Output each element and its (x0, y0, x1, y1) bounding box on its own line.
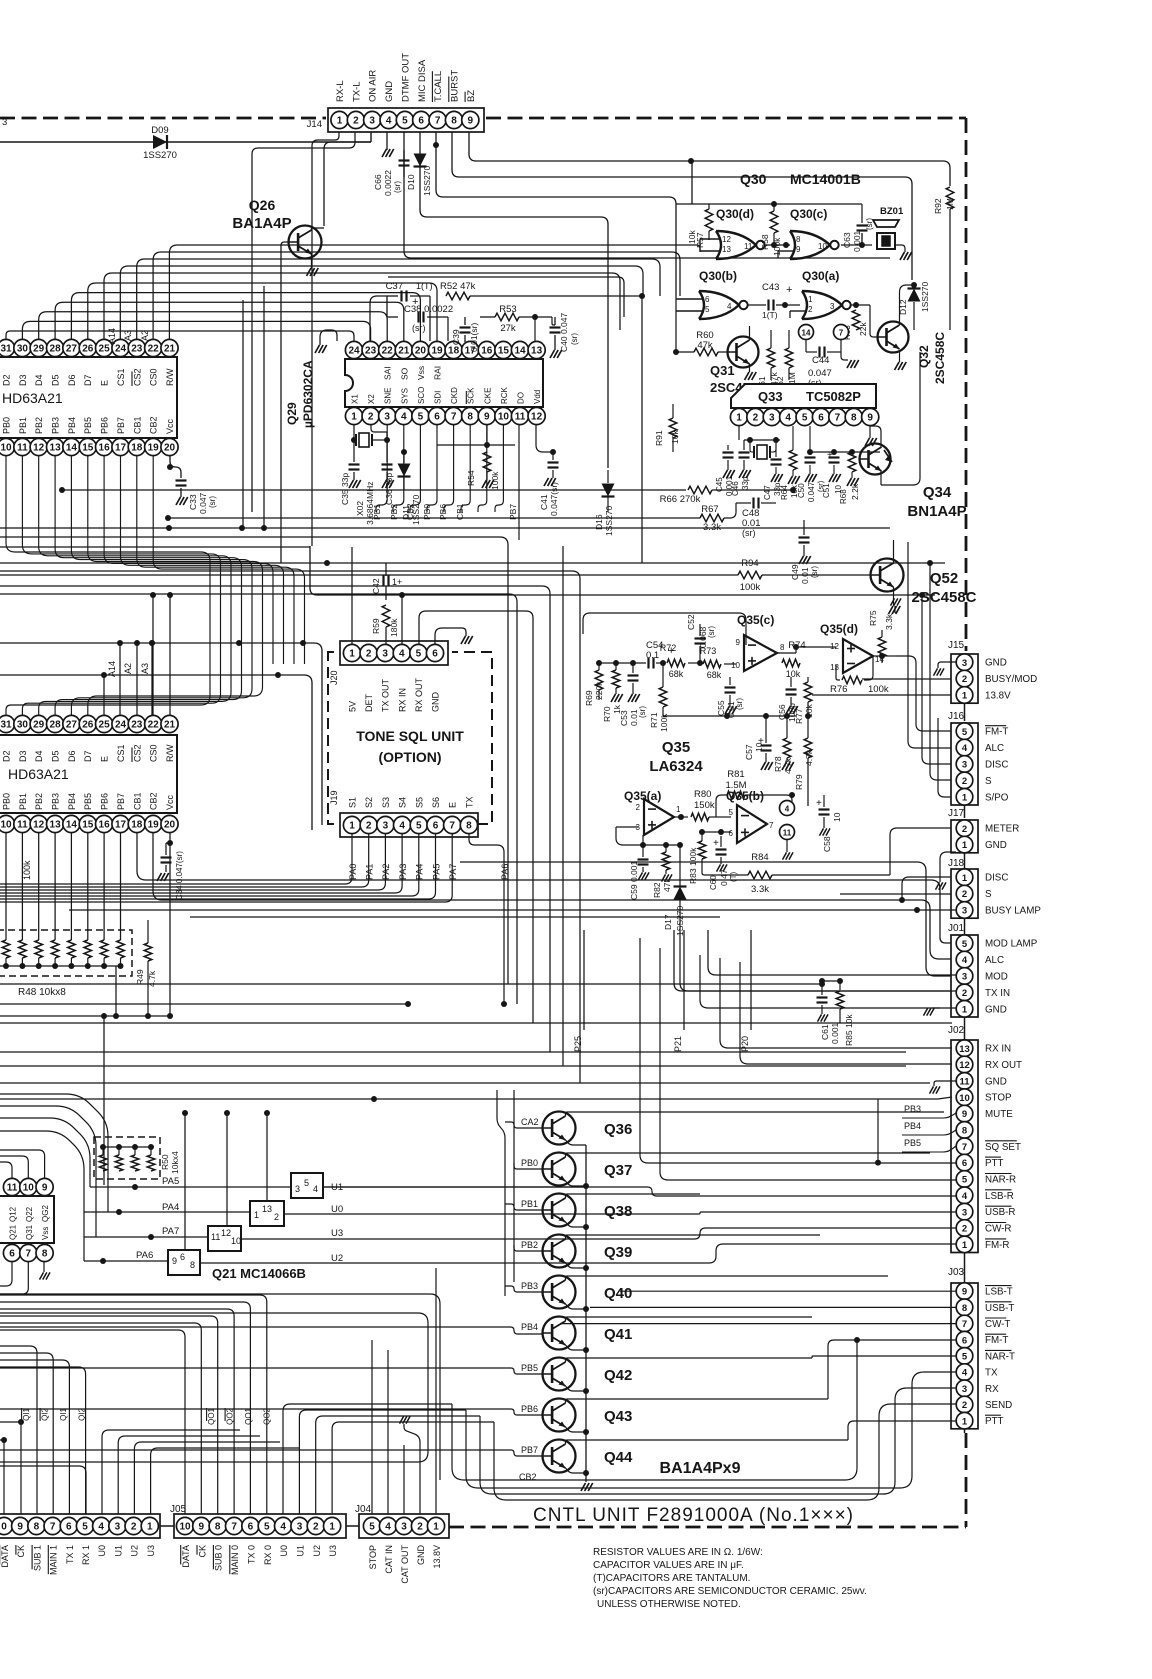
J20 pin4 wire up (401, 595, 403, 644)
svg-text:R72: R72 (660, 643, 677, 653)
svg-text:30: 30 (17, 344, 29, 355)
svg-text:3: 3 (383, 821, 389, 832)
svg-text:D7: D7 (83, 750, 93, 762)
svg-text:D3: D3 (18, 374, 28, 386)
svg-text:1(T): 1(T) (762, 310, 778, 320)
IC1 top pin labels (2, 374, 12, 386)
transistor Q32 (878, 322, 909, 353)
svg-text:J02: J02 (948, 1025, 965, 1036)
svg-text:5: 5 (962, 727, 968, 738)
svg-text:Q35(b): Q35(b) (726, 789, 764, 803)
Q35d output wire (873, 655, 882, 657)
svg-text:SO: SO (399, 367, 409, 380)
J05 pin verticals (0, 1330, 185, 1514)
vertical feeders top of mid-bus (431, 900, 433, 930)
svg-text:13: 13 (830, 663, 839, 672)
svg-text:CKD: CKD (450, 387, 459, 404)
svg-text:X2: X2 (367, 394, 376, 404)
svg-text:LA6324: LA6324 (649, 758, 703, 775)
svg-text:13: 13 (531, 346, 543, 357)
svg-text:4: 4 (962, 955, 968, 966)
svg-text:C57: C57 (744, 744, 754, 760)
svg-text:21: 21 (164, 720, 176, 731)
svg-text:R64: R64 (780, 485, 789, 500)
IC2 pins 25-21 wires up (103, 675, 105, 715)
svg-text:20: 20 (164, 820, 176, 831)
svg-text:1: 1 (351, 412, 357, 423)
wire C37 loop to Q29 (370, 296, 387, 341)
long net line to FM-T (452, 1340, 857, 1480)
svg-text:QO1: QO1 (244, 1407, 253, 1424)
svg-text:6: 6 (418, 116, 424, 127)
svg-text:3: 3 (962, 760, 967, 771)
svg-text:1: 1 (808, 295, 813, 304)
svg-text:16: 16 (481, 346, 493, 357)
svg-text:CKE: CKE (483, 388, 492, 404)
svg-text:C66: C66 (373, 174, 383, 190)
svg-text:DET: DET (364, 693, 374, 712)
IC Q33 TC5082P body (731, 384, 876, 408)
svg-text:13: 13 (262, 1204, 272, 1214)
svg-text:5: 5 (962, 1175, 968, 1186)
svg-text:Q35(c): Q35(c) (737, 613, 774, 627)
svg-text:12: 12 (959, 1060, 970, 1071)
svg-text:C40 0.047: C40 0.047 (559, 313, 569, 352)
svg-text:S6: S6 (431, 797, 441, 808)
transistor Q41 (543, 1317, 576, 1350)
svg-text:(sr): (sr) (735, 698, 744, 710)
svg-text:C55: C55 (716, 700, 726, 716)
bus line 2 under IC1 (0, 527, 890, 529)
svg-text:11: 11 (783, 829, 792, 838)
svg-text:PB7: PB7 (116, 793, 126, 810)
svg-text:R50: R50 (160, 1154, 170, 1170)
PA horizontal feeder to J01 (460, 862, 951, 976)
svg-text:BUSY LAMP: BUSY LAMP (985, 906, 1041, 917)
svg-text:C37: C37 (386, 281, 403, 292)
svg-text:(sr): (sr) (208, 496, 217, 508)
svg-text:13: 13 (722, 245, 731, 254)
resistor R79 (804, 738, 812, 758)
svg-text:P20: P20 (740, 1036, 750, 1052)
svg-text:CB2: CB2 (149, 792, 159, 810)
svg-text:GND: GND (384, 81, 395, 102)
resistor R82 (662, 852, 670, 870)
svg-text:1: 1 (962, 691, 968, 702)
svg-text:8: 8 (466, 821, 472, 832)
svg-text:68k: 68k (669, 669, 684, 679)
Q37 emitter wire (566, 1181, 587, 1185)
svg-text:1SS270: 1SS270 (143, 150, 177, 161)
diode D11 (398, 464, 411, 477)
bus lines middle-left (0, 562, 945, 564)
svg-text:4: 4 (280, 1522, 286, 1533)
diode D17 (674, 887, 687, 900)
transistor Q26 (289, 226, 322, 259)
PB labels under Q29 (372, 504, 382, 520)
svg-text:PB0: PB0 (2, 793, 12, 810)
svg-text:Q39: Q39 (604, 1244, 632, 1261)
svg-text:4: 4 (399, 649, 405, 660)
capacitor C37 tantalum (387, 295, 398, 297)
connector J14 (328, 108, 484, 132)
Q40 collector wire (566, 1276, 889, 1280)
Q26 collector wire (311, 226, 313, 230)
svg-text:MAIN 0: MAIN 0 (230, 1545, 240, 1575)
svg-text:18: 18 (131, 820, 143, 831)
svg-text:PTT: PTT (985, 1158, 1004, 1169)
svg-text:PB5: PB5 (521, 1363, 538, 1373)
svg-text:S1: S1 (348, 797, 358, 808)
svg-text:9: 9 (468, 116, 474, 127)
svg-text:5: 5 (304, 1178, 309, 1188)
transistor Q42 (543, 1358, 576, 1391)
svg-text:PB6: PB6 (100, 417, 110, 434)
svg-text:2: 2 (962, 674, 967, 685)
ground at J02 pin11 (934, 1081, 956, 1086)
svg-text:NAR-R: NAR-R (985, 1175, 1016, 1186)
capacitor C40 (550, 326, 561, 328)
svg-text:R69: R69 (584, 690, 594, 706)
svg-text:Q26: Q26 (249, 197, 276, 213)
svg-text:8: 8 (34, 1522, 40, 1533)
svg-text:U3: U3 (146, 1545, 156, 1557)
svg-text:BURST: BURST (450, 70, 461, 102)
svg-text:R81: R81 (727, 769, 744, 780)
svg-text:PA0: PA0 (348, 864, 358, 880)
svg-text:R70: R70 (602, 706, 612, 722)
svg-text:Q31: Q31 (710, 363, 735, 378)
svg-text:1: 1 (254, 1210, 259, 1220)
svg-text:X02: X02 (355, 501, 365, 516)
svg-text:0.47: 0.47 (719, 869, 729, 886)
svg-text:BA1A4Px9: BA1A4Px9 (660, 1460, 741, 1477)
svg-text:GND: GND (985, 1004, 1007, 1015)
svg-text:220k: 220k (594, 681, 604, 700)
svg-text:12: 12 (531, 412, 543, 423)
svg-text:GND: GND (985, 658, 1007, 669)
capacitor C56 (786, 688, 797, 690)
svg-text:Q43: Q43 (604, 1408, 632, 1425)
ground under left chip pin8 (43, 1262, 45, 1272)
capacitor C53 (628, 674, 639, 676)
svg-text:(sr): (sr) (412, 323, 426, 333)
resistor R91 (669, 418, 677, 438)
svg-text:R78: R78 (773, 756, 783, 772)
resistor R68 (848, 452, 856, 472)
vertical bundle right of TONE going down (516, 930, 517, 1004)
svg-text:26: 26 (82, 720, 94, 731)
vertical from C38 line down (447, 317, 449, 341)
svg-text:D6: D6 (67, 750, 77, 762)
svg-text:15: 15 (82, 443, 94, 454)
wire J14 pin5 stub down (404, 132, 890, 258)
A14 A2 A3 labels above IC2 (107, 661, 117, 677)
Q33 pins 1-9 (730, 408, 747, 425)
svg-text:R79: R79 (794, 774, 804, 790)
upper mid verticals from J14 area down (437, 145, 439, 296)
svg-text:A3: A3 (123, 330, 133, 341)
capacitor C59 (638, 858, 649, 860)
Q42 emitter wire (566, 1386, 587, 1390)
svg-text:Q38: Q38 (604, 1203, 632, 1220)
diode D12 (908, 289, 921, 302)
svg-text:7: 7 (26, 1249, 32, 1260)
svg-text:R/W: R/W (165, 368, 175, 386)
svg-text:4.7k: 4.7k (804, 749, 814, 766)
svg-text:QG2: QG2 (41, 1205, 50, 1222)
capacitor C47 (771, 458, 782, 460)
J03 PTT wire from Q44 (848, 1421, 956, 1440)
svg-text:Q41: Q41 (604, 1326, 632, 1343)
svg-text:PB6: PB6 (521, 1404, 538, 1414)
svg-text:ON AIR: ON AIR (368, 70, 379, 102)
svg-text:3: 3 (384, 412, 390, 423)
J14 pin labels (335, 80, 346, 102)
IC1-IC2 inter verticals (189, 460, 191, 715)
capacitor C33 (170, 456, 181, 478)
svg-text:RX OUT: RX OUT (985, 1060, 1022, 1071)
svg-text:3: 3 (369, 116, 375, 127)
svg-text:29: 29 (33, 344, 45, 355)
svg-text:DTMF OUT: DTMF OUT (400, 53, 411, 102)
capacitor C52 (695, 637, 706, 639)
IC2 bottom pin wires to R48 (5, 833, 7, 940)
svg-text:10: 10 (498, 412, 510, 423)
QO1 QO2 labels (207, 1407, 216, 1424)
svg-text:1: 1 (962, 1240, 968, 1251)
svg-text:4: 4 (785, 413, 791, 424)
resistor R66 (62, 489, 685, 491)
connector J20 (340, 641, 448, 665)
diode D09 (153, 135, 167, 149)
svg-text:11: 11 (515, 412, 526, 423)
border right dashed upper (965, 118, 968, 651)
svg-text:PB1: PB1 (521, 1199, 538, 1209)
capacitor C45 (723, 451, 734, 453)
svg-text:R66 270k: R66 270k (660, 494, 701, 505)
svg-text:(sr): (sr) (638, 706, 647, 718)
svg-text:ALC: ALC (985, 743, 1004, 754)
svg-text:SYS: SYS (400, 388, 409, 404)
svg-text:QI1: QI1 (59, 1407, 68, 1420)
svg-text:R73: R73 (700, 646, 717, 656)
svg-text:(sr): (sr) (742, 528, 756, 538)
svg-text:31: 31 (0, 720, 12, 731)
svg-text:CW-T: CW-T (985, 1319, 1010, 1330)
wire J14 pin8 fanout (452, 132, 912, 280)
svg-text:BZ: BZ (466, 90, 477, 102)
svg-text:R/W: R/W (165, 744, 175, 762)
svg-text:U1: U1 (113, 1545, 123, 1557)
svg-text:Q29: Q29 (285, 402, 299, 425)
svg-text:4: 4 (385, 1522, 391, 1533)
svg-text:3: 3 (297, 1522, 303, 1533)
J04 labels (368, 1545, 378, 1569)
svg-text:TC5082P: TC5082P (806, 389, 861, 404)
svg-text:5: 5 (962, 939, 968, 950)
nested corner wires above J02 (515, 930, 517, 1004)
svg-text:4: 4 (386, 116, 392, 127)
IC1 bottom pin wires bundle (6, 456, 210, 715)
svg-text:R49: R49 (135, 969, 145, 985)
svg-text:0.001: 0.001 (830, 1022, 840, 1044)
svg-text:5: 5 (264, 1522, 270, 1533)
svg-text:U2: U2 (312, 1545, 322, 1557)
svg-text:R80: R80 (694, 789, 711, 800)
svg-text:Q35: Q35 (662, 739, 690, 756)
svg-text:10kx4: 10kx4 (170, 1151, 180, 1174)
svg-text:7: 7 (231, 1522, 237, 1533)
svg-text:U3: U3 (328, 1545, 338, 1557)
svg-text:DO: DO (517, 392, 526, 404)
Q29 top pin labels (383, 366, 393, 380)
J20 pin1 wire up (351, 547, 353, 644)
svg-text:S5: S5 (414, 797, 424, 808)
svg-text:1: 1 (962, 792, 968, 803)
svg-text:RX IN: RX IN (985, 1044, 1011, 1055)
svg-text:2: 2 (962, 889, 967, 900)
svg-text:9: 9 (199, 1522, 205, 1533)
svg-text:C46: C46 (731, 481, 740, 496)
svg-text:FM-T: FM-T (985, 1335, 1008, 1346)
crystal X03 (753, 446, 755, 458)
svg-text:Vcc: Vcc (165, 418, 175, 434)
svg-text:6: 6 (9, 1249, 15, 1260)
svg-text:Q30(d): Q30(d) (716, 207, 754, 221)
mid bus horizontals (0, 983, 822, 985)
svg-text:R59: R59 (371, 618, 381, 634)
Q26 emitter ground (311, 254, 313, 268)
Q41 collector wire (566, 1317, 813, 1321)
svg-text:R82: R82 (652, 882, 662, 898)
svg-text:C42: C42 (371, 578, 381, 594)
resistor R54 (486, 425, 488, 445)
svg-text:7: 7 (769, 821, 774, 830)
crystal X02 (353, 425, 355, 440)
svg-text:J19: J19 (329, 790, 339, 805)
Q34 emitter wire (881, 330, 935, 480)
svg-text:J15: J15 (948, 640, 965, 651)
svg-text:UNLESS OTHERWISE NOTED.: UNLESS OTHERWISE NOTED. (597, 1599, 741, 1610)
svg-text:8: 8 (780, 643, 785, 652)
svg-text:RX 1: RX 1 (81, 1545, 91, 1565)
svg-text:3.3k: 3.3k (703, 522, 721, 533)
svg-text:3.3k: 3.3k (751, 884, 769, 895)
svg-text:C47: C47 (763, 485, 772, 500)
svg-text:2: 2 (636, 803, 641, 812)
svg-text:BZ01: BZ01 (880, 206, 904, 217)
J05 pins 4-1 up-right bends (283, 1404, 452, 1514)
svg-text:USB-R: USB-R (985, 1207, 1015, 1218)
transistor Q38 (543, 1194, 576, 1227)
bundle from IC2 bottom to right (137, 833, 951, 943)
svg-text:0.047: 0.047 (198, 492, 208, 514)
svg-text:S: S (985, 776, 992, 787)
svg-text:QO2: QO2 (226, 1407, 235, 1424)
Q26 base wire (281, 242, 288, 563)
svg-text:PB5: PB5 (904, 1138, 921, 1148)
svg-text:4.7k: 4.7k (147, 970, 157, 987)
svg-text:5: 5 (82, 1522, 88, 1533)
svg-text:PA2: PA2 (381, 864, 391, 880)
svg-text:3: 3 (962, 1207, 967, 1218)
Q29 pins 11-12 wires down (536, 425, 553, 452)
svg-text:2.2k: 2.2k (850, 483, 860, 500)
svg-text:C51: C51 (822, 483, 831, 498)
svg-text:Vss: Vss (416, 366, 426, 380)
svg-text:A2: A2 (140, 330, 150, 341)
svg-text:(sr): (sr) (707, 626, 716, 638)
IC2 top pin labels (2, 750, 12, 762)
svg-text:QO1: QO1 (207, 1407, 216, 1424)
svg-text:U1: U1 (296, 1545, 306, 1557)
diode D16 (602, 484, 615, 497)
svg-text:22: 22 (382, 346, 394, 357)
svg-text:PB4: PB4 (904, 1121, 921, 1131)
resistor network R48 10kx8 dashed box (0, 930, 132, 976)
svg-text:3: 3 (769, 413, 775, 424)
svg-text:MAIN 1: MAIN 1 (49, 1545, 59, 1575)
svg-text:S4: S4 (398, 797, 408, 808)
fan wires to J16 pins (895, 656, 951, 731)
svg-text:13.8V: 13.8V (432, 1545, 442, 1569)
capacitor C42 (382, 576, 384, 587)
svg-text:1: 1 (736, 413, 742, 424)
svg-text:CB1: CB1 (132, 416, 142, 434)
svg-text:R53: R53 (499, 304, 516, 315)
svg-text:6: 6 (433, 821, 439, 832)
svg-text:TONE SQL UNIT: TONE SQL UNIT (356, 728, 464, 744)
svg-text:TX: TX (464, 796, 474, 808)
vertical wires from bus corners down (0, 594, 517, 1004)
Q36 emitter wire (566, 1140, 587, 1144)
svg-text:J20: J20 (329, 670, 339, 685)
svg-text:Q32: Q32 (917, 345, 931, 368)
svg-text:25: 25 (99, 344, 111, 355)
svg-text:SUB 0: SUB 0 (214, 1545, 224, 1571)
svg-text:5: 5 (418, 412, 424, 423)
svg-text:J14: J14 (307, 119, 322, 130)
J06 wires up curving (18, 1419, 24, 1425)
svg-text:Q40: Q40 (604, 1285, 632, 1302)
left chip partial body (3, 1178, 20, 1195)
svg-text:1: 1 (676, 805, 681, 814)
J04 ground (404, 1426, 420, 1514)
IC1 top pin wires bundle to Q29 (6, 331, 354, 341)
svg-text:16: 16 (99, 443, 111, 454)
resistor R92 (946, 187, 954, 209)
svg-text:Q35(a): Q35(a) (624, 789, 661, 803)
svg-text:C53: C53 (619, 710, 629, 726)
svg-text:10k: 10k (786, 669, 801, 679)
svg-text:20: 20 (164, 443, 176, 454)
svg-text:29: 29 (33, 720, 45, 731)
R48 output vertical (115, 966, 117, 1016)
svg-text:(T)CAPACITORS ARE TANTALUM.: (T)CAPACITORS ARE TANTALUM. (593, 1573, 750, 1584)
svg-text:RX: RX (985, 1384, 999, 1395)
svg-text:D16: D16 (594, 514, 604, 530)
analog switch U0 box (250, 1201, 284, 1226)
svg-text:5: 5 (369, 1522, 375, 1533)
svg-text:24: 24 (348, 346, 360, 357)
svg-text:3: 3 (295, 1184, 300, 1194)
svg-text:1: 1 (962, 1004, 968, 1015)
svg-text:28: 28 (50, 720, 62, 731)
svg-text:10: 10 (0, 820, 12, 831)
capacitor C51 electrolytic (829, 456, 840, 458)
svg-text:2: 2 (962, 824, 967, 835)
